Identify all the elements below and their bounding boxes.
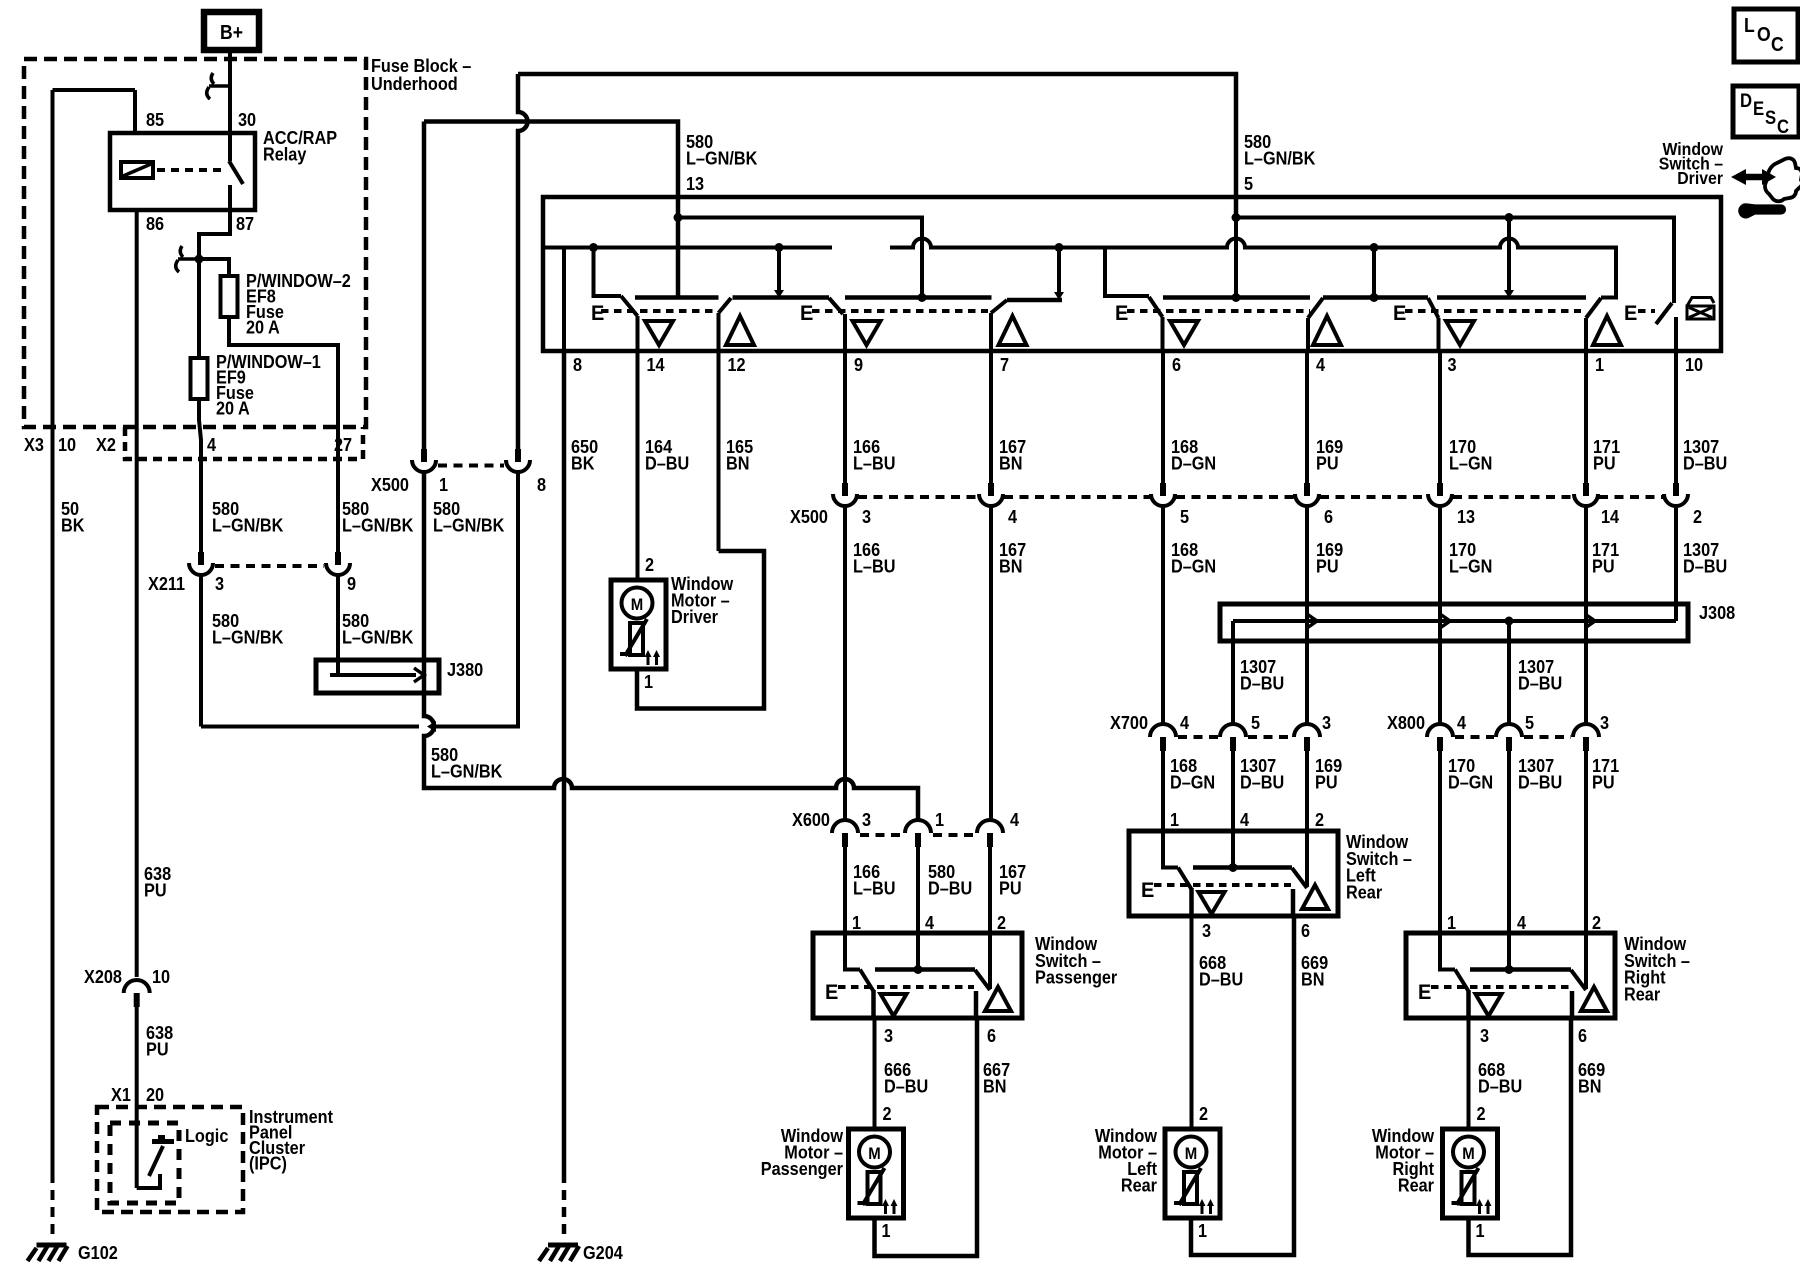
- svg-text:1: 1: [644, 671, 653, 692]
- svg-text:Underhood: Underhood: [371, 73, 458, 94]
- svg-text:5: 5: [1251, 712, 1260, 733]
- svg-text:PU: PU: [1592, 772, 1615, 793]
- svg-text:BN: BN: [726, 453, 749, 474]
- svg-text:6: 6: [1301, 920, 1310, 941]
- svg-text:3: 3: [1480, 1025, 1489, 1046]
- svg-text:BN: BN: [1301, 969, 1324, 990]
- svg-text:4: 4: [1457, 712, 1466, 733]
- svg-text:14: 14: [1601, 506, 1619, 527]
- svg-text:C: C: [1771, 33, 1784, 55]
- svg-text:9: 9: [854, 354, 863, 375]
- svg-text:27: 27: [334, 434, 352, 455]
- svg-text:E: E: [825, 981, 838, 1005]
- svg-text:L–BU: L–BU: [853, 556, 895, 577]
- svg-text:D–BU: D–BU: [1518, 772, 1562, 793]
- svg-text:Rear: Rear: [1121, 1175, 1157, 1196]
- svg-text:X208: X208: [84, 966, 122, 987]
- svg-text:E: E: [1393, 302, 1406, 326]
- svg-text:Relay: Relay: [263, 144, 307, 165]
- svg-text:PU: PU: [144, 880, 167, 901]
- svg-text:1: 1: [935, 809, 944, 830]
- svg-text:L–GN/BK: L–GN/BK: [342, 515, 414, 536]
- svg-text:D–BU: D–BU: [1518, 673, 1562, 694]
- svg-text:5: 5: [1525, 712, 1534, 733]
- svg-text:3: 3: [862, 506, 871, 527]
- svg-text:10: 10: [1685, 354, 1703, 375]
- svg-text:PU: PU: [1592, 556, 1615, 577]
- svg-text:E: E: [1141, 879, 1154, 903]
- svg-text:4: 4: [207, 434, 216, 455]
- svg-text:J308: J308: [1699, 602, 1735, 623]
- svg-text:L–GN/BK: L–GN/BK: [433, 515, 505, 536]
- svg-text:13: 13: [686, 173, 704, 194]
- svg-text:G204: G204: [583, 1242, 623, 1263]
- svg-text:M: M: [1185, 1145, 1197, 1163]
- svg-text:X2: X2: [96, 434, 116, 455]
- svg-text:6: 6: [1324, 506, 1333, 527]
- svg-text:4: 4: [925, 912, 934, 933]
- svg-text:J380: J380: [447, 659, 483, 680]
- svg-text:6: 6: [1172, 354, 1181, 375]
- svg-text:3: 3: [1202, 920, 1211, 941]
- svg-text:PU: PU: [1316, 556, 1339, 577]
- svg-text:D–BU: D–BU: [884, 1076, 928, 1097]
- svg-text:10: 10: [58, 434, 76, 455]
- svg-text:BK: BK: [61, 515, 85, 536]
- svg-text:Passenger: Passenger: [761, 1158, 843, 1179]
- svg-text:5: 5: [1244, 173, 1253, 194]
- svg-text:87: 87: [236, 213, 254, 234]
- svg-text:3: 3: [1322, 712, 1331, 733]
- svg-text:13: 13: [1457, 506, 1475, 527]
- svg-text:(IPC): (IPC): [249, 1153, 287, 1174]
- svg-text:1: 1: [882, 1220, 891, 1241]
- svg-text:G102: G102: [78, 1242, 118, 1263]
- svg-text:D: D: [1740, 90, 1752, 111]
- svg-text:X600: X600: [792, 809, 830, 830]
- svg-text:E: E: [1753, 98, 1764, 119]
- svg-text:L–GN/BK: L–GN/BK: [212, 515, 284, 536]
- svg-text:5: 5: [1180, 506, 1189, 527]
- svg-text:1: 1: [1198, 1220, 1207, 1241]
- svg-text:L–GN/BK: L–GN/BK: [686, 148, 758, 169]
- svg-text:D–GN: D–GN: [1171, 453, 1216, 474]
- svg-text:C: C: [1777, 116, 1789, 137]
- svg-text:D–BU: D–BU: [1240, 673, 1284, 694]
- svg-text:9: 9: [347, 573, 356, 594]
- svg-text:L–BU: L–BU: [853, 878, 895, 899]
- svg-text:Driver: Driver: [1677, 168, 1723, 188]
- svg-text:D–BU: D–BU: [1683, 556, 1727, 577]
- svg-text:1: 1: [1476, 1220, 1485, 1241]
- svg-text:D–BU: D–BU: [1683, 453, 1727, 474]
- svg-text:20: 20: [146, 1084, 164, 1105]
- svg-text:L–GN: L–GN: [1449, 453, 1492, 474]
- svg-text:M: M: [631, 596, 643, 614]
- svg-text:8: 8: [537, 474, 546, 495]
- svg-text:1: 1: [1447, 912, 1456, 933]
- svg-text:2: 2: [883, 1103, 892, 1124]
- svg-text:PU: PU: [1316, 453, 1339, 474]
- svg-text:2: 2: [1315, 809, 1324, 830]
- svg-text:PU: PU: [999, 878, 1022, 899]
- svg-text:PU: PU: [146, 1039, 169, 1060]
- svg-text:D–GN: D–GN: [1171, 556, 1216, 577]
- svg-text:4: 4: [1517, 912, 1526, 933]
- svg-text:1: 1: [852, 912, 861, 933]
- svg-text:Rear: Rear: [1398, 1175, 1434, 1196]
- svg-text:3: 3: [1448, 354, 1457, 375]
- svg-text:M: M: [868, 1145, 880, 1163]
- svg-text:Driver: Driver: [671, 606, 718, 627]
- svg-text:L–GN/BK: L–GN/BK: [431, 761, 503, 782]
- svg-text:M: M: [1462, 1145, 1474, 1163]
- svg-text:Logic: Logic: [185, 1125, 229, 1146]
- svg-text:7: 7: [1000, 354, 1009, 375]
- svg-text:2: 2: [645, 554, 654, 575]
- svg-text:D–BU: D–BU: [928, 878, 972, 899]
- svg-text:Rear: Rear: [1346, 881, 1382, 902]
- svg-text:3: 3: [862, 809, 871, 830]
- svg-text:1: 1: [439, 474, 448, 495]
- svg-text:3: 3: [215, 573, 224, 594]
- svg-text:D–BU: D–BU: [1478, 1076, 1522, 1097]
- svg-text:E: E: [1418, 981, 1431, 1005]
- svg-text:X800: X800: [1387, 712, 1425, 733]
- svg-text:L–GN/BK: L–GN/BK: [342, 627, 414, 648]
- svg-text:BK: BK: [571, 453, 595, 474]
- svg-text:4: 4: [1316, 354, 1325, 375]
- svg-text:E: E: [1115, 302, 1128, 326]
- svg-text:PU: PU: [1315, 772, 1338, 793]
- svg-text:L–BU: L–BU: [853, 453, 895, 474]
- svg-text:1: 1: [1595, 354, 1604, 375]
- svg-text:2: 2: [1592, 912, 1601, 933]
- svg-text:6: 6: [987, 1025, 996, 1046]
- svg-text:E: E: [591, 302, 604, 326]
- svg-text:85: 85: [146, 109, 164, 130]
- svg-text:X500: X500: [790, 506, 828, 527]
- svg-text:20 A: 20 A: [246, 317, 280, 338]
- svg-text:L–GN: L–GN: [1449, 556, 1492, 577]
- svg-text:86: 86: [146, 213, 164, 234]
- svg-text:2: 2: [1693, 506, 1702, 527]
- svg-text:20 A: 20 A: [216, 398, 250, 419]
- svg-text:2: 2: [1477, 1103, 1486, 1124]
- svg-text:X1: X1: [111, 1084, 131, 1105]
- svg-text:D–BU: D–BU: [1240, 772, 1284, 793]
- svg-text:X3: X3: [24, 434, 44, 455]
- svg-text:B+: B+: [220, 21, 243, 43]
- svg-text:E: E: [800, 302, 813, 326]
- svg-text:2: 2: [1199, 1103, 1208, 1124]
- svg-text:1: 1: [1170, 809, 1179, 830]
- svg-text:L–GN/BK: L–GN/BK: [1244, 148, 1316, 169]
- svg-text:D–BU: D–BU: [1199, 969, 1243, 990]
- svg-text:X500: X500: [371, 474, 409, 495]
- svg-text:S: S: [1765, 107, 1776, 128]
- svg-text:BN: BN: [983, 1076, 1006, 1097]
- svg-text:E: E: [1624, 302, 1637, 326]
- svg-text:4: 4: [1180, 712, 1189, 733]
- svg-text:6: 6: [1578, 1025, 1587, 1046]
- svg-text:10: 10: [152, 966, 170, 987]
- svg-text:BN: BN: [999, 453, 1022, 474]
- svg-text:PU: PU: [1593, 453, 1616, 474]
- svg-text:4: 4: [1010, 809, 1019, 830]
- svg-text:L: L: [1744, 14, 1755, 36]
- svg-text:14: 14: [647, 354, 665, 375]
- svg-text:X700: X700: [1110, 712, 1148, 733]
- svg-text:4: 4: [1008, 506, 1017, 527]
- svg-text:3: 3: [1600, 712, 1609, 733]
- svg-text:2: 2: [997, 912, 1006, 933]
- svg-text:Rear: Rear: [1624, 983, 1660, 1004]
- svg-text:O: O: [1757, 23, 1771, 45]
- svg-text:BN: BN: [999, 556, 1022, 577]
- svg-text:D–BU: D–BU: [645, 453, 689, 474]
- svg-text:X211: X211: [148, 573, 185, 594]
- svg-text:BN: BN: [1578, 1076, 1601, 1097]
- svg-text:D–GN: D–GN: [1448, 772, 1493, 793]
- svg-text:Passenger: Passenger: [1035, 967, 1117, 988]
- svg-text:L–GN/BK: L–GN/BK: [212, 627, 284, 648]
- svg-text:12: 12: [728, 354, 746, 375]
- svg-text:30: 30: [238, 109, 256, 130]
- svg-text:3: 3: [884, 1025, 893, 1046]
- svg-text:4: 4: [1240, 809, 1249, 830]
- svg-text:8: 8: [573, 354, 582, 375]
- svg-text:D–GN: D–GN: [1170, 772, 1215, 793]
